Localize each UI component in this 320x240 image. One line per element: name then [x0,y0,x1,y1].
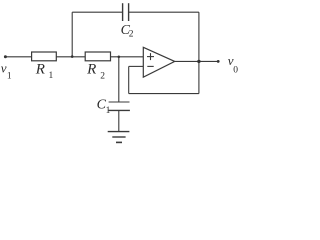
svg-text:2: 2 [100,72,105,82]
svg-text:R: R [86,62,96,78]
svg-text:1: 1 [106,106,111,116]
svg-text:0: 0 [233,65,238,75]
svg-text:R: R [35,62,45,78]
svg-text:v: v [1,60,7,75]
svg-text:1: 1 [7,72,12,82]
svg-text:1: 1 [49,71,54,81]
svg-text:2: 2 [129,30,134,40]
